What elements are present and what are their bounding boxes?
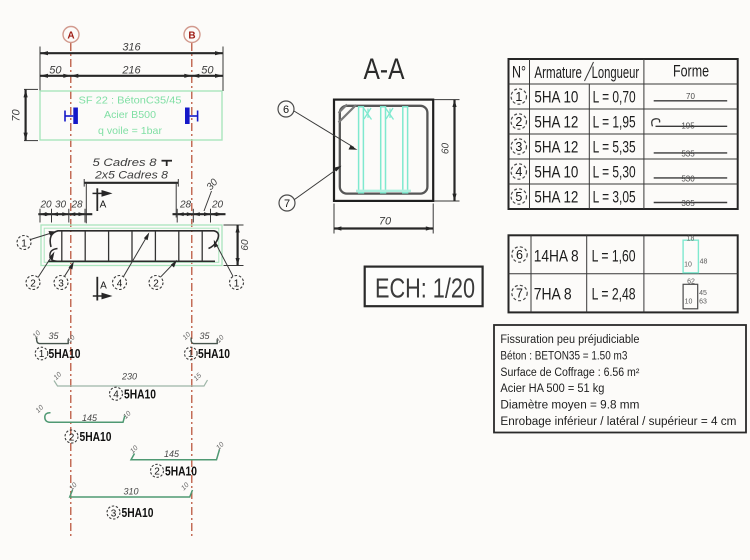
svg-text:L = 1,60: L = 1,60 <box>592 247 636 265</box>
rebar band 1 (teal) <box>359 107 364 193</box>
grid bubble B <box>184 27 200 43</box>
dimension chain left 20/30/28 <box>38 199 92 222</box>
label bar 1 right <box>185 347 231 361</box>
svg-text:5HA10: 5HA10 <box>49 347 81 361</box>
svg-text:535: 535 <box>681 150 695 159</box>
row 4 <box>511 163 727 183</box>
svg-text:10: 10 <box>684 262 692 269</box>
beam elevation outline outer (green) <box>41 225 222 266</box>
svg-text:SF 22 : BétonC35/45: SF 22 : BétonC35/45 <box>79 95 182 107</box>
section concrete outline <box>334 100 433 201</box>
centerline axis B (red dash-dot) <box>191 43 193 537</box>
svg-text:50: 50 <box>201 64 214 76</box>
svg-text:50: 50 <box>49 64 62 76</box>
svg-text:63: 63 <box>699 299 707 306</box>
svg-text:A-A: A-A <box>364 53 405 86</box>
rebar top hooks (teal) <box>364 108 394 120</box>
svg-text:L = 0,70: L = 0,70 <box>593 88 636 106</box>
svg-text:230: 230 <box>121 371 137 381</box>
svg-text:4: 4 <box>117 278 123 289</box>
section marker A (top) <box>93 188 113 211</box>
svg-text:3: 3 <box>111 508 117 519</box>
svg-text:145: 145 <box>164 449 180 459</box>
callout 2 left <box>26 252 55 290</box>
svg-text:5HA 12: 5HA 12 <box>534 188 578 206</box>
svg-text:62: 62 <box>687 279 695 286</box>
svg-text:70: 70 <box>686 92 695 101</box>
svg-text:216: 216 <box>121 64 141 76</box>
svg-text:A: A <box>100 200 107 211</box>
stirrup 1 <box>61 232 63 262</box>
dimension 70 (section bottom) <box>334 204 433 234</box>
row 5 <box>511 188 727 208</box>
svg-text:Enrobage inférieur / latéral /: Enrobage inférieur / latéral / supérieur… <box>500 416 736 428</box>
svg-text:L = 3,05: L = 3,05 <box>593 188 636 206</box>
label bar 4 <box>110 387 157 401</box>
svg-text:2: 2 <box>154 467 160 478</box>
dimension 316 (overall) <box>40 42 223 92</box>
svg-text:Acier B500: Acier B500 <box>104 109 156 121</box>
dimension 70 (beam height left) <box>11 89 39 140</box>
svg-text:2x5 Cadres 8: 2x5 Cadres 8 <box>94 169 169 181</box>
svg-text:60: 60 <box>441 143 452 155</box>
dimension 60 (beam depth right) <box>224 225 252 266</box>
svg-text:Armature: Armature <box>534 64 582 82</box>
table header <box>512 62 709 82</box>
row 7 <box>512 279 707 309</box>
svg-text:2: 2 <box>153 278 159 289</box>
svg-text:10: 10 <box>685 299 693 306</box>
stirrup 5 <box>154 232 156 262</box>
svg-text:18: 18 <box>687 236 695 243</box>
svg-text:45: 45 <box>699 290 707 297</box>
dimension chain right 28/30/20 <box>173 177 226 223</box>
label bar 2 right <box>151 464 198 478</box>
scale box ECH: 1/20 <box>365 267 483 307</box>
svg-text:35: 35 <box>199 331 210 341</box>
svg-text:1: 1 <box>234 278 240 289</box>
svg-text:7: 7 <box>284 198 290 210</box>
svg-text:310: 310 <box>123 487 138 497</box>
svg-text:20: 20 <box>39 199 52 210</box>
row 3 <box>511 138 727 158</box>
svg-text:A: A <box>100 281 107 292</box>
grid bubble A <box>63 27 79 43</box>
callout 1 left <box>17 231 57 250</box>
svg-text:L = 2,48: L = 2,48 <box>592 286 636 304</box>
svg-text:5HA10: 5HA10 <box>80 430 112 444</box>
dimension 60 (section right) <box>434 100 460 201</box>
section marker A (bottom) <box>93 277 113 301</box>
svg-text:195: 195 <box>681 122 695 131</box>
svg-text:1: 1 <box>188 349 194 360</box>
svg-text:5HA 12: 5HA 12 <box>534 113 578 131</box>
stirrup tee symbol <box>162 161 173 166</box>
stirrup hook hatch <box>339 105 357 123</box>
svg-text:L = 5,35: L = 5,35 <box>593 138 636 156</box>
svg-text:Acier HA 500 = 51 kg: Acier HA 500 = 51 kg <box>500 383 604 395</box>
rebar schedule table 2 <box>509 235 738 312</box>
svg-text:1: 1 <box>515 90 522 104</box>
bottom rebar <box>48 260 215 262</box>
svg-text:145: 145 <box>82 413 98 423</box>
top rebar with end hooks <box>50 231 218 249</box>
svg-text:5HA10: 5HA10 <box>122 506 154 520</box>
svg-text:L = 5,30: L = 5,30 <box>593 163 636 181</box>
svg-text:6: 6 <box>516 248 523 262</box>
svg-text:5HA 12: 5HA 12 <box>534 138 578 156</box>
svg-text:1: 1 <box>21 238 27 249</box>
svg-text:6: 6 <box>283 104 289 116</box>
svg-text:30: 30 <box>55 199 67 210</box>
beam elevation outline inner (green) <box>44 228 219 262</box>
callout 3 <box>54 262 74 290</box>
svg-text:5HA10: 5HA10 <box>124 387 156 401</box>
svg-text:Fissuration peu préjudiciable: Fissuration peu préjudiciable <box>500 334 639 346</box>
svg-text:48: 48 <box>700 259 708 266</box>
stirrup 3 <box>108 232 110 262</box>
support symbol right (blue) <box>185 108 198 125</box>
bar shape 1 left <box>32 330 77 345</box>
row 2 <box>511 113 727 131</box>
svg-text:316: 316 <box>122 42 141 54</box>
centerline axis A (red dash-dot) <box>70 43 72 537</box>
stirrup 7 <box>201 232 203 262</box>
rebar band 3 (teal) <box>403 107 408 193</box>
beam outline (plan view, green) <box>40 91 222 140</box>
svg-text:Béton : BETON35 = 1.50 m3: Béton : BETON35 = 1.50 m3 <box>500 350 627 362</box>
notes box <box>494 325 746 433</box>
svg-text:28: 28 <box>70 199 83 210</box>
bar shape 3 <box>68 482 192 497</box>
svg-text:4: 4 <box>515 165 522 179</box>
svg-text:3: 3 <box>515 140 522 154</box>
svg-text:q voile = 1bar: q voile = 1bar <box>98 125 162 137</box>
svg-text:5HA 10: 5HA 10 <box>534 163 578 181</box>
stirrup 4 <box>131 232 133 262</box>
svg-text:5HA10: 5HA10 <box>165 465 197 479</box>
svg-text:20: 20 <box>211 199 224 210</box>
svg-text:ECH: 1/20: ECH: 1/20 <box>375 273 475 304</box>
bar shape 2 left <box>35 404 133 423</box>
row 6 <box>512 236 708 273</box>
callout 1 right <box>214 240 244 290</box>
svg-text:Diamètre moyen = 9.8 mm: Diamètre moyen = 9.8 mm <box>500 400 639 412</box>
svg-text:4: 4 <box>113 390 119 401</box>
rebar bottom strip (teal) <box>356 190 411 192</box>
rebar schedule table 1 <box>509 59 738 209</box>
svg-text:530: 530 <box>681 175 695 184</box>
svg-text:60: 60 <box>240 239 251 251</box>
svg-text:35: 35 <box>48 331 59 341</box>
label bar 1 left <box>35 347 80 361</box>
svg-text:2: 2 <box>515 115 522 129</box>
svg-text:Surface de Coffrage : 6.56 m²: Surface de Coffrage : 6.56 m² <box>500 367 639 379</box>
svg-text:5: 5 <box>515 190 522 204</box>
svg-text:2: 2 <box>69 432 75 443</box>
callout 4 <box>113 232 150 289</box>
callout 2 right <box>149 260 177 290</box>
stirrup zone bracket <box>84 179 178 223</box>
label bar 3 <box>107 506 154 520</box>
svg-text:70: 70 <box>11 109 23 122</box>
svg-text:Longueur: Longueur <box>592 64 640 82</box>
stirrup 6 <box>178 232 180 262</box>
svg-text:5HA 10: 5HA 10 <box>534 88 578 106</box>
svg-text:1: 1 <box>39 349 45 360</box>
svg-text:Forme: Forme <box>673 63 709 81</box>
section stirrup (grey) <box>340 106 428 194</box>
callout 6 <box>278 101 358 150</box>
svg-text:5 Cadres 8: 5 Cadres 8 <box>93 157 158 169</box>
support symbol left (blue) <box>65 108 78 125</box>
svg-text:305: 305 <box>681 199 695 208</box>
svg-text:28: 28 <box>179 199 192 210</box>
svg-text:70: 70 <box>379 216 392 228</box>
bottom-left bar hook <box>50 249 58 262</box>
dimension chain 50 / 216 / 50 <box>40 64 223 78</box>
bar shape 1 right <box>182 331 226 345</box>
svg-text:5HA10: 5HA10 <box>198 347 230 361</box>
svg-text:7: 7 <box>516 287 523 301</box>
rebar band 2 (teal) <box>381 107 386 193</box>
bar shape 2 right <box>129 441 226 460</box>
svg-text:3: 3 <box>58 278 64 289</box>
svg-text:N°: N° <box>512 64 526 82</box>
svg-text:B: B <box>188 31 195 42</box>
label bar 2 left <box>65 430 112 444</box>
svg-text:7HA 8: 7HA 8 <box>534 286 572 304</box>
svg-text:L = 1,95: L = 1,95 <box>593 113 636 131</box>
callout 7 <box>279 166 342 211</box>
svg-text:A: A <box>67 31 74 42</box>
svg-text:2: 2 <box>30 278 36 289</box>
stirrup 2 <box>84 232 86 262</box>
svg-text:14HA 8: 14HA 8 <box>534 247 579 265</box>
row 1 <box>511 88 727 106</box>
bar shape 4 <box>53 371 208 386</box>
